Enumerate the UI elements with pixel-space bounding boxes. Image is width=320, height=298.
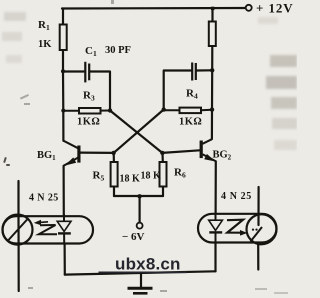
optocoupler U1 detector diagonal bbox=[9, 218, 29, 240]
optocoupler U1 photon zigzag bbox=[39, 225, 57, 234]
resistor R5 bbox=[111, 162, 118, 187]
optocoupler U2 right 4N25 body bbox=[198, 214, 277, 243]
wire bottom rail bbox=[65, 271, 216, 274]
wire right rail upper bbox=[211, 8, 213, 22]
optocoupler U2 detector diagonal bbox=[251, 227, 263, 242]
wire R2 to C2 node bbox=[211, 46, 213, 70]
resistor R1 bbox=[60, 25, 67, 51]
node B C2/R4/diag junction bbox=[162, 107, 166, 111]
wire R4 node to BG2 collector bbox=[211, 110, 213, 140]
wire R1 to C1 node bbox=[62, 50, 64, 72]
node dot R3 left junction bbox=[61, 109, 65, 113]
ground bbox=[128, 287, 153, 290]
wire BG1 base bbox=[81, 152, 114, 154]
optocoupler U2 detector circle bbox=[247, 214, 277, 244]
resistor R4 bbox=[164, 108, 212, 114]
svg-text:1KΩ: 1KΩ bbox=[179, 117, 202, 128]
wire R3 node to BG1 collector bbox=[62, 111, 64, 141]
wire top rail bbox=[62, 7, 245, 10]
wire right opto detector bottom dangling bbox=[257, 243, 259, 270]
svg-text:18 K: 18 K bbox=[141, 171, 162, 182]
optocoupler U2 LED D2 bbox=[209, 220, 223, 230]
capacitor C2 bbox=[192, 63, 196, 81]
wire BG2 base bbox=[162, 150, 200, 153]
optocoupler U2 photon zigzag arrows bbox=[227, 220, 243, 233]
optocoupler U1 detector circle bbox=[3, 215, 33, 245]
wire C2 node to R4 node bbox=[211, 70, 213, 109]
wire R6 top lead bbox=[161, 153, 164, 162]
svg-text:4 N 25: 4 N 25 bbox=[29, 193, 59, 204]
node A C1/R3/diag junction bbox=[108, 108, 112, 112]
svg-text:− 6V: − 6V bbox=[122, 231, 145, 243]
wire cross diagonal node A to BG2 base node bbox=[110, 111, 162, 153]
optocoupler U1 LED D1 bbox=[57, 221, 71, 231]
wire right opto detector top dangling bbox=[257, 187, 259, 225]
resistor R2 bbox=[209, 22, 216, 47]
wire left opto input dangling lead bbox=[17, 181, 19, 216]
svg-text:1KΩ: 1KΩ bbox=[77, 117, 100, 128]
wire C1 right to node A bbox=[90, 72, 110, 111]
wire BG1 emitter down bbox=[62, 166, 64, 216]
left margin smudges bbox=[3, 157, 10, 166]
wire left opto detector bottom dangling bbox=[18, 244, 20, 292]
node dot R2 top junction bbox=[211, 7, 214, 10]
resistor R6 bbox=[160, 162, 167, 187]
resistor R3 bbox=[63, 108, 110, 114]
node dot -6V junction bbox=[137, 194, 141, 198]
wire R5 bottom lead bbox=[113, 187, 115, 197]
node dot R1/C1 junction bbox=[61, 69, 65, 73]
optocoupler U1 photon arrow bbox=[38, 221, 48, 224]
wire R5 top lead bbox=[113, 153, 115, 162]
svg-text:4 N 25: 4 N 25 bbox=[221, 191, 252, 202]
svg-text:30 PF: 30 PF bbox=[105, 45, 131, 56]
wire left opto detector lead through circle bbox=[17, 216, 19, 244]
wire cross diagonal node B to BG1 base node bbox=[114, 110, 164, 153]
node dot BG2 base junction bbox=[160, 151, 164, 155]
background bleed-through noise right margin bbox=[258, 17, 297, 150]
faint top-left bleed-through bbox=[2, 12, 26, 63]
wire C2 right bbox=[197, 69, 212, 71]
wire -6V stub bbox=[139, 196, 141, 222]
svg-text:18 K: 18 K bbox=[120, 174, 141, 185]
svg-text:+ 12V: + 12V bbox=[256, 1, 294, 16]
svg-text:1K: 1K bbox=[38, 39, 52, 50]
wire C2 left to node B bbox=[164, 71, 191, 110]
transistor BG1 bbox=[63, 141, 80, 166]
optocoupler U1 left 4N25 body bbox=[3, 216, 94, 243]
terminal +12V bbox=[246, 5, 252, 11]
wire left LED cathode down bbox=[63, 244, 65, 275]
wire BG2 emitter down bbox=[215, 161, 217, 213]
node dot C2 right junction bbox=[210, 68, 214, 72]
wire C1 node to R3 node bbox=[62, 71, 64, 111]
capacitor C1 bbox=[85, 62, 89, 83]
wire C1 left bbox=[63, 70, 84, 72]
wire right LED cathode down bbox=[214, 243, 216, 272]
transistor BG2 bbox=[200, 139, 216, 161]
wire bias bottom bbox=[114, 195, 163, 197]
wire left rail upper bbox=[62, 9, 64, 26]
svg-text:ubx8.cn: ubx8.cn bbox=[115, 255, 181, 274]
terminal -6V bbox=[137, 223, 143, 229]
wire ground stub bbox=[140, 273, 142, 287]
node dot R4 right junction bbox=[210, 107, 214, 111]
node dot BG1 base junction bbox=[111, 151, 115, 155]
wire R6 bottom lead bbox=[162, 187, 164, 197]
